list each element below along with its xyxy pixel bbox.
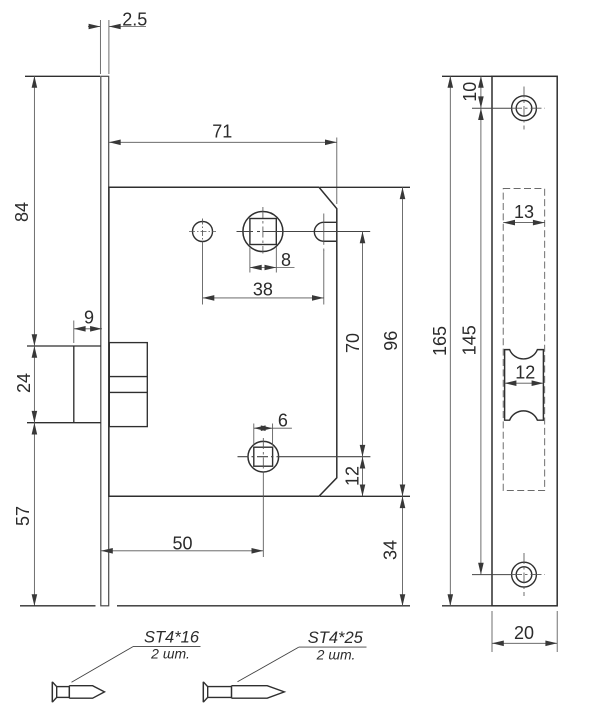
dim 8 square <box>250 247 295 273</box>
svg-text:38: 38 <box>253 280 273 300</box>
screw ST4x16 <box>52 682 104 702</box>
edge hole at case edge <box>314 214 336 251</box>
dim 38 hole spacing <box>203 244 324 305</box>
faceplate (side view) <box>101 76 109 606</box>
svg-text:6: 6 <box>278 410 288 430</box>
svg-text:2 шт.: 2 шт. <box>316 647 356 663</box>
svg-text:70: 70 <box>343 333 363 353</box>
dim 96 and 34 vertical <box>117 187 410 606</box>
spindle hole with 8mm square <box>243 207 283 254</box>
dim 165 overall <box>430 76 492 606</box>
centreline lower hole <box>238 456 371 458</box>
dim 20 plate width <box>492 611 557 652</box>
svg-text:13: 13 <box>514 202 534 222</box>
latch bolt (protrusion) <box>27 346 101 423</box>
svg-text:12: 12 <box>342 466 362 486</box>
latch guide block <box>109 343 147 427</box>
svg-text:8: 8 <box>281 250 291 270</box>
svg-text:2 шт.: 2 шт. <box>150 646 190 662</box>
svg-text:71: 71 <box>212 122 232 142</box>
faceplate (front view) <box>492 76 557 606</box>
svg-text:10: 10 <box>460 82 480 102</box>
svg-text:2.5: 2.5 <box>122 9 147 29</box>
dim 71 case depth <box>109 122 337 204</box>
svg-text:20: 20 <box>514 623 534 643</box>
dim 13 cutout width <box>503 202 545 226</box>
top screw hole <box>511 87 545 130</box>
dim 12 latch width <box>505 363 544 386</box>
dim 9 latch protrusion <box>74 308 102 343</box>
latch bolt front view (spool shape) <box>505 350 544 421</box>
lower spindle hole with 6mm square <box>248 438 279 474</box>
label ST4*25 <box>238 629 367 682</box>
dim 2.5 faceplate thickness <box>88 9 147 74</box>
svg-text:145: 145 <box>459 325 479 355</box>
svg-text:57: 57 <box>13 506 33 526</box>
svg-text:ST4*16: ST4*16 <box>144 629 200 647</box>
svg-text:ST4*25: ST4*25 <box>308 629 364 647</box>
dashed cutout (lock case behind) <box>503 189 545 491</box>
lock case body (side view) <box>109 187 337 496</box>
svg-text:96: 96 <box>381 331 401 351</box>
centreline upper holes <box>237 231 371 233</box>
svg-text:34: 34 <box>381 540 401 560</box>
svg-text:24: 24 <box>14 373 34 393</box>
label ST4*16 <box>72 629 201 683</box>
svg-text:12: 12 <box>515 363 535 383</box>
dim 10 and 145 screw centres <box>459 76 511 575</box>
fixing hole (small, left) <box>189 219 216 245</box>
dim 6 square <box>254 410 292 445</box>
dim 50 backset <box>101 474 263 557</box>
svg-text:165: 165 <box>430 326 450 356</box>
screw ST4x25 <box>203 682 284 702</box>
dim chain 84 / 24 / 57 <box>12 76 100 606</box>
bottom screw hole <box>511 553 545 596</box>
dim 70 and 12 vertical <box>342 232 365 497</box>
svg-text:84: 84 <box>12 202 32 222</box>
svg-text:9: 9 <box>84 308 94 328</box>
svg-text:50: 50 <box>172 533 192 553</box>
